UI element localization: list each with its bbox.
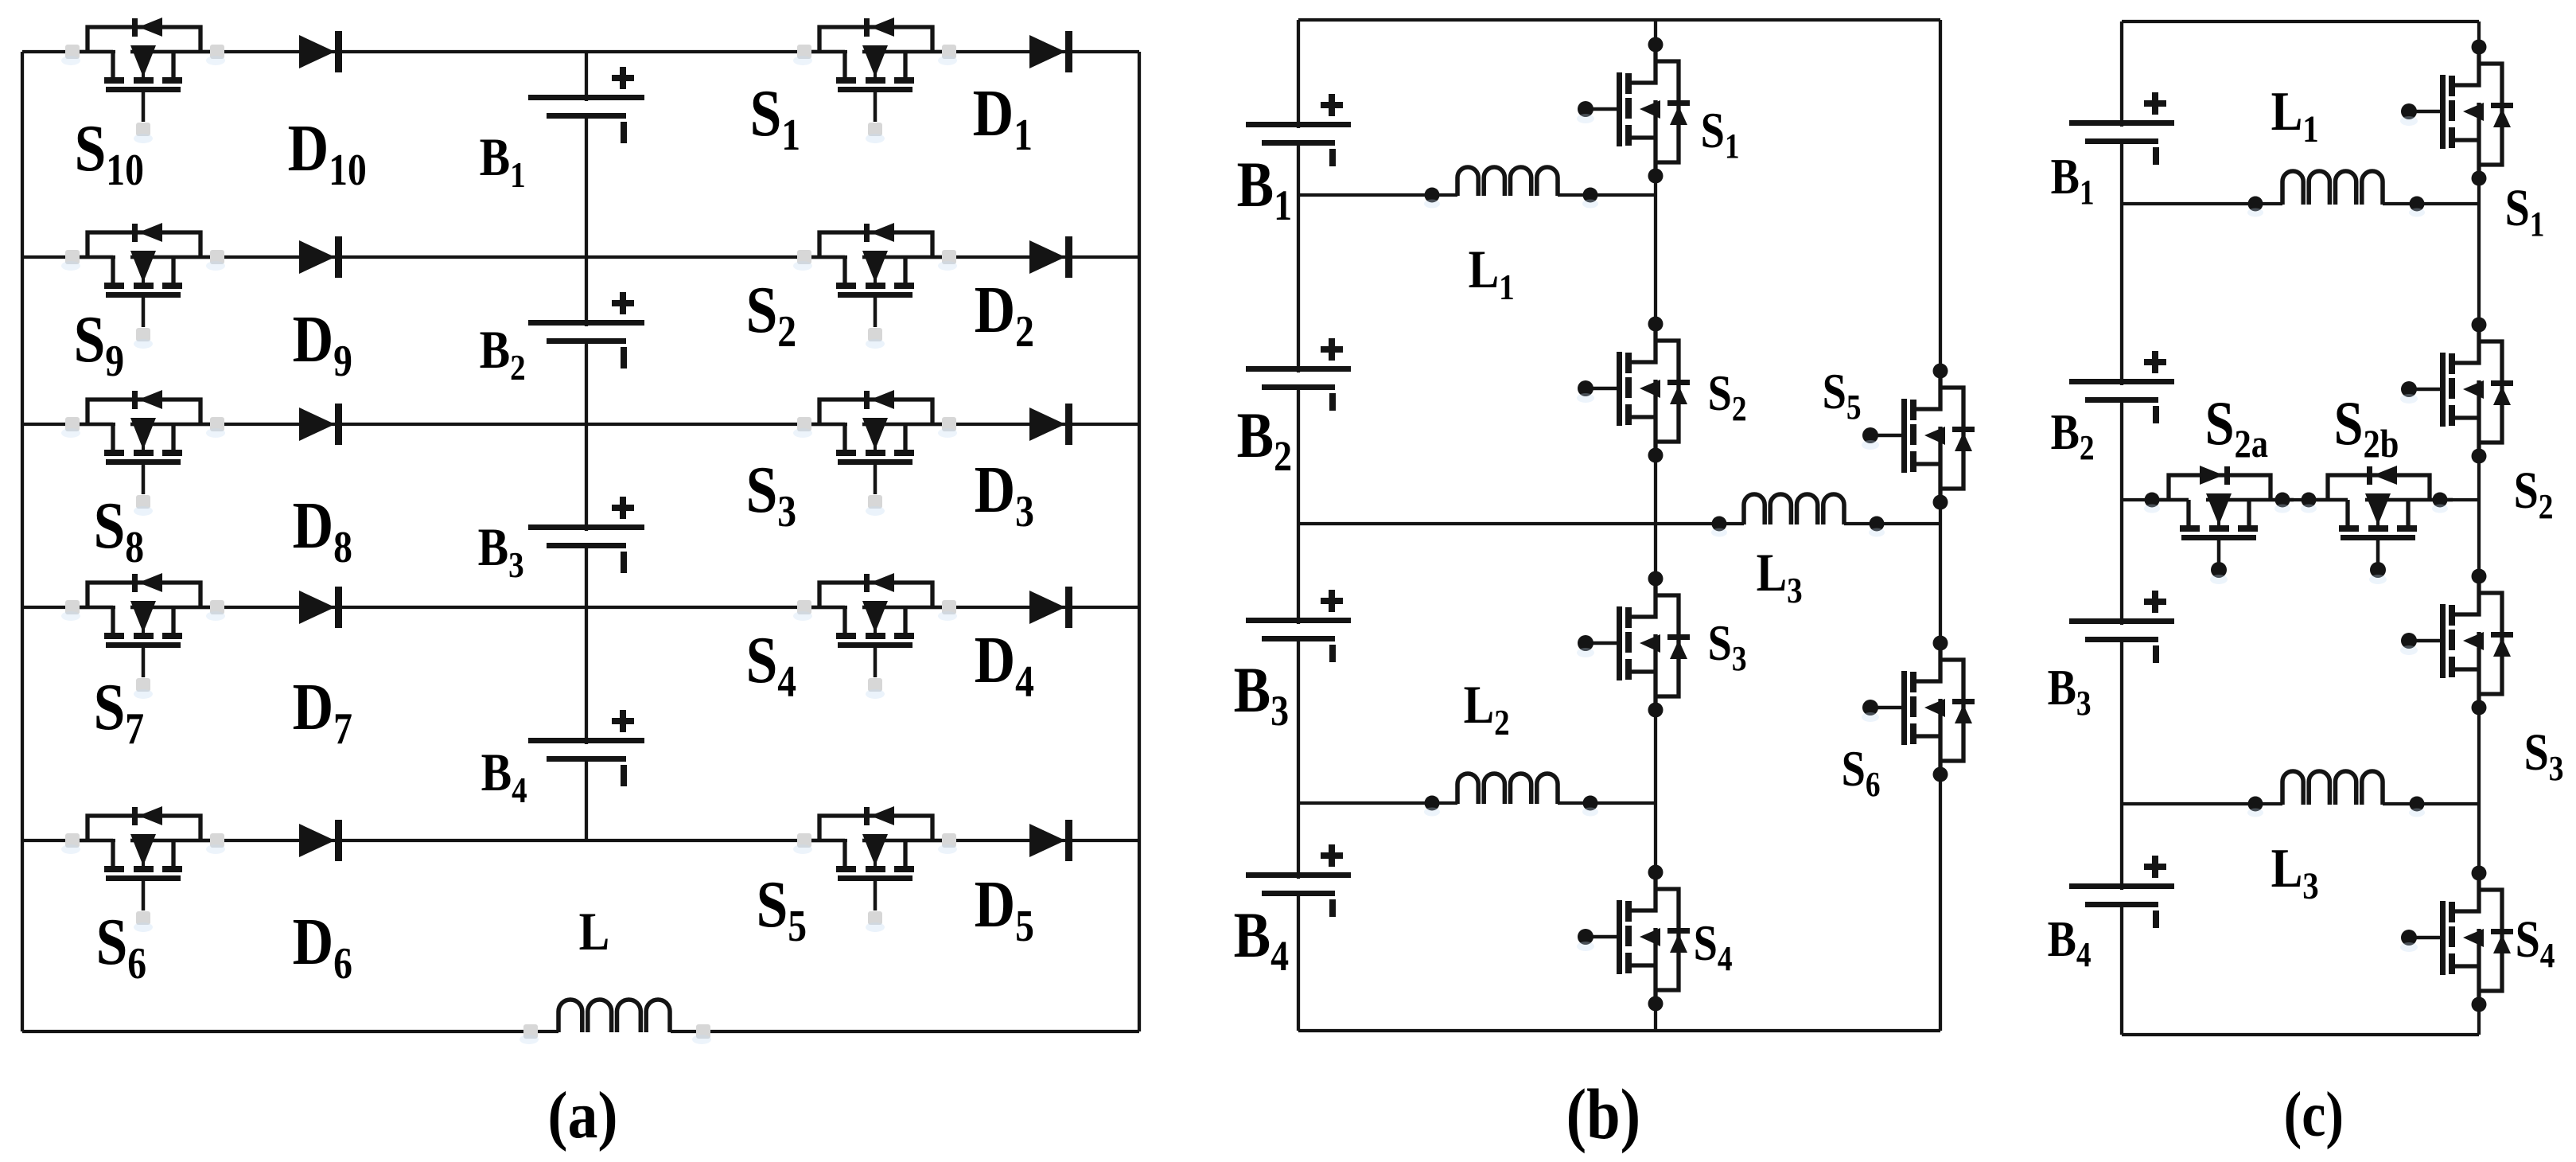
label D5 <box>975 868 1034 951</box>
label B4 b <box>1234 899 1289 980</box>
transistor S5r <box>793 806 957 932</box>
node mid w dot1 <box>2145 493 2160 508</box>
node L1c left <box>2248 197 2263 212</box>
label L1 c <box>2271 81 2319 150</box>
battery B4 <box>528 710 644 786</box>
label D9 <box>293 302 352 386</box>
node L3 left <box>1712 517 1727 532</box>
wire top border B <box>1298 18 1940 21</box>
diode D10 <box>299 31 342 72</box>
wire node wire C2 s1 <box>2122 498 2189 501</box>
label S2a_lbl <box>746 273 797 357</box>
node L1 right <box>1583 188 1598 203</box>
label L2 b <box>1464 675 1510 743</box>
wire right rail C seg1 <box>2477 21 2481 85</box>
label D8 <box>293 489 352 572</box>
label S2a c <box>2205 389 2268 466</box>
label S5 b <box>1823 363 1862 427</box>
wire center rail B seg4 <box>1654 672 1657 910</box>
battery B4b <box>1246 844 1351 917</box>
label S6 b <box>1842 740 1881 804</box>
label S8 <box>94 489 145 572</box>
transistor S2r <box>793 223 957 349</box>
wire right rail B seg2 <box>1939 464 1942 681</box>
label S3a <box>746 453 797 536</box>
label caption a <box>547 1078 617 1152</box>
wire left rail C <box>2120 21 2123 1035</box>
label S2b c <box>2334 389 2399 466</box>
inductor L3 <box>1744 494 1844 524</box>
diode D8 <box>299 404 342 445</box>
transistor S7 <box>61 573 225 699</box>
inductor L2 <box>1457 774 1558 804</box>
wire row1 <box>22 50 1139 53</box>
transistor S9 <box>61 223 225 349</box>
label D6 <box>293 905 352 988</box>
label B4 c <box>2048 910 2092 974</box>
label B1 c <box>2051 148 2095 212</box>
inductor L3c <box>2282 771 2383 805</box>
battery B1b <box>1246 94 1351 166</box>
wire right rail C seg4 <box>2477 669 2481 911</box>
transistor S1c <box>2400 40 2513 186</box>
label S3 c <box>2524 723 2564 788</box>
svg-text:(c): (c) <box>2284 1080 2344 1150</box>
battery B1 <box>528 67 644 143</box>
wire center rail B seg1 <box>1654 20 1657 83</box>
label B2 c <box>2051 404 2095 467</box>
label caption b <box>1566 1075 1640 1154</box>
label D3 <box>975 453 1034 536</box>
node L3 right <box>1870 517 1885 532</box>
transistor S4b <box>1577 865 1690 1012</box>
transistor S8 <box>61 390 225 516</box>
wire left rail B <box>1297 20 1300 1031</box>
diode D3 <box>1029 404 1072 445</box>
wire right rail B seg3 <box>1939 736 1942 1031</box>
wire right rail C seg3 <box>2477 418 2481 614</box>
label D1 <box>973 76 1033 160</box>
svg-text:(a): (a) <box>547 1078 617 1152</box>
wire top border C <box>2122 20 2479 23</box>
node mid w dot4 <box>2433 493 2448 508</box>
label L <box>579 902 610 961</box>
node L3c left <box>2248 797 2263 812</box>
battery B3b <box>1246 590 1351 662</box>
transistor S3c <box>2400 569 2513 716</box>
diode D2 <box>1029 236 1072 278</box>
svg-text:(b): (b) <box>1566 1075 1640 1154</box>
label B3 <box>478 517 524 586</box>
transistor S10 <box>61 18 225 143</box>
inductor L <box>558 1000 670 1032</box>
wire row3 <box>22 423 1139 426</box>
transistor S1b <box>1577 37 1690 184</box>
transistor S3r <box>793 390 957 516</box>
label L3 c <box>2271 838 2319 907</box>
label S9 <box>74 302 125 386</box>
node mid w dot2 <box>2275 493 2290 508</box>
label D7 <box>293 670 352 754</box>
svg-text:L: L <box>579 902 610 961</box>
label S4 b <box>1694 914 1733 978</box>
wire node wire C2 s3 <box>2365 498 2479 501</box>
battery B3c <box>2069 591 2174 663</box>
diode D4 <box>1029 587 1072 628</box>
node L3c right <box>2410 797 2425 812</box>
transistor S6b <box>1862 636 1975 782</box>
diode D7 <box>299 587 342 628</box>
label S2 c <box>2514 462 2554 526</box>
wire node wire B1B2 <box>1298 193 1457 197</box>
label S2 b <box>1708 365 1747 428</box>
diode D6 <box>299 820 342 861</box>
wire row5 <box>22 839 1139 842</box>
wire right rail B seg1 <box>1939 20 1942 409</box>
label S1 b <box>1701 102 1740 166</box>
label S7 <box>94 670 145 754</box>
label D2 <box>975 273 1034 357</box>
label S4a <box>746 623 797 707</box>
wire bottom A <box>22 1030 558 1033</box>
diode D9 <box>299 236 342 278</box>
inductor L1c <box>2282 171 2383 205</box>
battery B2b <box>1246 338 1351 411</box>
node L1 left <box>1425 188 1440 203</box>
transistor S2a <box>2146 466 2294 584</box>
node mid w dot3 <box>2302 493 2317 508</box>
wire node wire B1B2b <box>1558 193 1656 197</box>
label B2 b <box>1237 400 1292 480</box>
transistor S1r <box>793 18 957 143</box>
wire node wire mid <box>1298 522 1744 525</box>
wire node wire midb <box>1844 522 1940 525</box>
label caption c <box>2284 1080 2344 1150</box>
label D10 <box>288 111 367 195</box>
battery B1c <box>2069 92 2174 165</box>
wire left border A <box>21 52 24 1031</box>
transistor S4r <box>793 573 957 699</box>
label S10 <box>75 111 144 195</box>
transistor S2c <box>2400 318 2513 464</box>
wire node wire C1 <box>2122 202 2282 205</box>
transistor S2b_c <box>2305 466 2453 584</box>
wire node wire B3B4b <box>1558 801 1656 805</box>
node L1c right <box>2410 197 2425 212</box>
battery B4c <box>2069 856 2174 928</box>
node L left pad <box>523 1024 538 1039</box>
label B1 <box>480 127 526 196</box>
wire node wire C3 <box>2122 802 2282 805</box>
label B3 c <box>2048 659 2092 723</box>
wire row2 <box>22 255 1139 259</box>
wire node wire B3B4 <box>1298 801 1457 805</box>
wire right rail C seg5 <box>2477 966 2481 1035</box>
wire center rail B seg2 <box>1654 138 1657 362</box>
battery B2 <box>528 292 644 368</box>
label B2 <box>480 320 526 388</box>
transistor S5b <box>1862 364 1975 510</box>
label L3 b <box>1757 543 1803 611</box>
label S4 c <box>2516 910 2555 975</box>
wire node wire C3b <box>2383 802 2479 805</box>
battery B3 <box>528 497 644 573</box>
wire bottom border C <box>2122 1033 2479 1036</box>
label S1a <box>750 76 801 160</box>
label S3 b <box>1708 614 1747 678</box>
label B3 b <box>1234 654 1289 735</box>
wire right border A <box>1138 52 1141 1031</box>
diode D1 <box>1029 31 1072 72</box>
transistor S4c <box>2400 866 2513 1012</box>
diode D5 <box>1029 820 1072 861</box>
wire bottom border B <box>1298 1029 1940 1032</box>
wire bottom A right <box>671 1030 1139 1033</box>
wire center rail B seg5 <box>1654 965 1657 1031</box>
label L1 b <box>1469 240 1515 308</box>
wire center rail B seg3 <box>1654 417 1657 617</box>
wire node wire C1b <box>2383 202 2479 205</box>
label S6 <box>96 905 147 988</box>
wire row4 <box>22 606 1139 609</box>
wire right rail C seg2 <box>2477 140 2481 363</box>
transistor S6 <box>61 806 225 932</box>
wire battery column A <box>585 52 588 840</box>
battery B2c <box>2069 351 2174 423</box>
label S1 c <box>2505 179 2545 244</box>
label B1 b <box>1237 149 1292 229</box>
label B4 <box>481 743 527 811</box>
transistor S3b <box>1577 571 1690 718</box>
label S5a <box>757 868 807 951</box>
inductor L1 <box>1457 167 1558 196</box>
node L2 left <box>1425 796 1440 811</box>
node L2 right <box>1583 796 1598 811</box>
label D4 <box>975 623 1034 707</box>
node L right pad <box>696 1024 710 1039</box>
wire node wire C2 s2 <box>2206 498 2348 501</box>
transistor S2b_sw <box>1577 317 1690 463</box>
